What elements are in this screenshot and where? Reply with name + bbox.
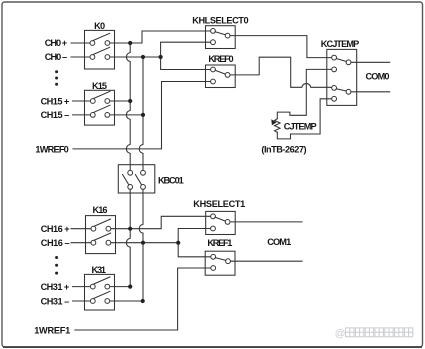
wire CH15- output	[110, 114, 143, 116]
svg-text:CH16 –: CH16 –	[41, 238, 70, 248]
wire KHLSELECT0 output to KCJTEMP pin1	[230, 36, 332, 58]
wire COM0 HI output	[351, 61, 390, 63]
junction CH31+ bus1	[128, 285, 132, 289]
relay box K16	[86, 216, 116, 254]
contacts KREF1	[211, 254, 216, 259]
switch lever KREF1	[215, 258, 226, 261]
svg-text:1WREF1: 1WREF1	[34, 325, 70, 335]
svg-text:CH16 +: CH16 +	[41, 224, 70, 234]
junction CH0- tap	[159, 55, 163, 59]
svg-text:@: @	[335, 328, 346, 340]
svg-text:CH15 +: CH15 +	[41, 96, 70, 106]
junction CH16- bus2	[141, 241, 145, 245]
switch lever KHLSELECT0	[215, 32, 225, 35]
relay box K31	[85, 274, 115, 310]
switch lever K31 row2	[94, 291, 110, 298]
wire CH0+ input	[71, 42, 90, 44]
watermark glyph boxes	[346, 328, 413, 337]
svg-text:CH0 +: CH0 +	[45, 38, 67, 48]
ellipsis dots upper	[55, 70, 58, 73]
relay box KCJTEMP	[327, 49, 357, 105]
contacts KHLSELECT0	[211, 29, 216, 34]
contacts KCJTEMP	[332, 55, 337, 60]
svg-text:CH31 +: CH31 +	[41, 282, 70, 292]
svg-text:K15: K15	[92, 81, 107, 91]
switch lever KCJTEMP lower	[336, 89, 346, 91]
wire CH0+ output to KHLSELECT0 top	[110, 31, 211, 43]
wire KHSELECT1 output COM1 HI	[230, 221, 302, 223]
svg-text:K31: K31	[92, 265, 107, 275]
svg-text:KBC01: KBC01	[158, 176, 184, 186]
junction CH0+ bus1	[128, 41, 132, 45]
wire 1WREF0 to KREF0 bottom	[73, 82, 211, 149]
svg-text:(InTB-2627): (InTB-2627)	[261, 145, 306, 155]
junction CH16- tap	[176, 241, 180, 245]
wire bus2 upper vertical	[139, 57, 143, 170]
contacts K16	[91, 226, 96, 231]
switch lever KHSELECT1	[215, 217, 225, 221]
wire CH31- output	[110, 300, 143, 302]
wire CH16- input	[71, 242, 91, 244]
wire KREF1 output COM1 LO	[230, 260, 302, 262]
contacts KBC01	[128, 170, 133, 175]
switch lever K15 row1	[94, 91, 110, 98]
switch lever K0 row1	[93, 33, 109, 40]
wire bus2 lower vertical	[139, 189, 143, 301]
svg-text:CJTEMP: CJTEMP	[284, 122, 317, 132]
relay box KHSELECT1	[206, 211, 236, 234]
wire COM0 LO output	[351, 91, 390, 93]
wire CH16- output	[111, 242, 178, 244]
svg-text:KHSELECT1: KHSELECT1	[193, 199, 245, 209]
junction CH16+ bus1	[128, 227, 132, 231]
switch lever K15 row2	[94, 105, 110, 112]
wire bus1 upper vertical	[126, 43, 130, 170]
svg-text:KREF0: KREF0	[208, 54, 233, 64]
switch lever K31 row1	[94, 277, 110, 284]
wire 1WREF1 to KREF1 bottom	[75, 268, 211, 330]
wire KREF0 output to KCJTEMP pin3	[230, 57, 332, 87]
wire bus1 lower vertical	[126, 189, 130, 286]
svg-text:CH31 –: CH31 –	[41, 296, 70, 306]
relay box KBC01	[118, 165, 155, 193]
switch lever KCJTEMP upper	[336, 59, 346, 62]
contacts KHSELECT1	[211, 214, 216, 219]
relay box K15	[85, 90, 115, 125]
wire CH31+ input	[73, 286, 91, 288]
svg-text:KHLSELECT0: KHLSELECT0	[192, 16, 248, 26]
contacts K31	[90, 284, 95, 289]
contacts K0	[90, 41, 95, 46]
wire KCJTEMP pin2 to CJTEMP top	[277, 69, 331, 118]
svg-text:CH15 –: CH15 –	[41, 110, 70, 120]
ellipsis dots lower	[55, 256, 58, 259]
relay box KREF0	[206, 65, 236, 88]
svg-text:CH0 –: CH0 –	[45, 52, 67, 62]
border bottom shadow	[3, 346, 422, 348]
contacts KREF0	[211, 67, 216, 72]
switch lever KBC01 left	[123, 174, 129, 184]
svg-text:COM1: COM1	[267, 237, 291, 247]
wire node vertical to KHSELECT1 bottom and KREF1 top	[178, 229, 211, 257]
switch lever K0 row2	[93, 47, 109, 54]
relay box KREF1	[205, 251, 235, 275]
wire CH31+ output	[110, 286, 131, 288]
relay box K0	[85, 30, 115, 69]
wire node vertical to KHLSELECT0 bottom and KREF0 top	[161, 42, 211, 69]
junction CH0- bus2	[141, 55, 145, 59]
wire CH0- input	[71, 56, 90, 58]
wire CH16+ output to KHSELECT1 top	[111, 216, 211, 228]
junction CH15+ bus1	[128, 99, 132, 103]
svg-text:K0: K0	[94, 21, 105, 31]
thermistor arrow on CJTEMP	[271, 119, 276, 125]
svg-text:K16: K16	[93, 205, 108, 215]
svg-text:1WREF0: 1WREF0	[35, 144, 68, 154]
junction CH31- bus2	[141, 299, 145, 303]
wire CH15- input	[73, 114, 91, 116]
wire CH31- input	[73, 300, 91, 302]
svg-text:COM0: COM0	[366, 72, 390, 82]
svg-text:KREF1: KREF1	[207, 238, 232, 248]
wire CH0- output	[110, 56, 161, 58]
junction CH15- bus2	[141, 113, 145, 117]
switch lever KREF0	[215, 70, 225, 74]
switch lever KBC01 right	[135, 174, 141, 184]
wire CH15+ input	[73, 100, 91, 102]
switch lever K16 row2	[94, 233, 110, 240]
wire CJTEMP bottom to KCJTEMP pin4	[277, 99, 331, 139]
svg-text:KCJTEMP: KCJTEMP	[321, 39, 360, 49]
resistor CJTEMP zigzag	[275, 119, 281, 133]
switch lever K16 row1	[94, 219, 110, 226]
wire CH16+ input	[71, 228, 91, 230]
contacts K15	[90, 99, 95, 104]
relay box KHLSELECT0	[206, 26, 236, 49]
wire CH15+ output	[110, 100, 130, 102]
